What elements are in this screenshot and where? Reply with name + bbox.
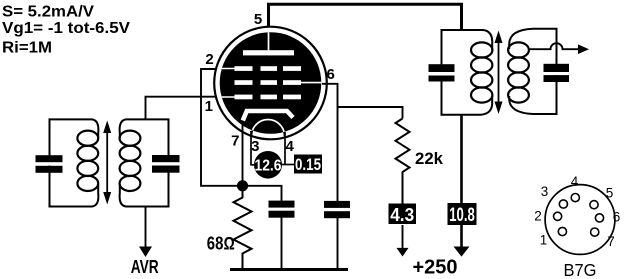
capacitor C6 (T2 secondary tuning) (544, 64, 570, 82)
anode plate (white bar) (243, 50, 294, 55)
cathode (white bracket) (243, 111, 293, 121)
g3 white lead to pin2 (219, 68, 235, 70)
tuning arrow T1 coupling (103, 121, 111, 205)
svg-text:68Ω: 68Ω (207, 234, 235, 254)
svg-text:2: 2 (205, 51, 213, 68)
svg-text:AVR: AVR (131, 256, 159, 277)
wire grid tap from T1 secondary to g1 (146, 97, 221, 120)
transformer T1 primary tank wiring (50, 119, 99, 206)
svg-text:+250: +250 (413, 257, 458, 279)
capacitor C1 (T1 primary tuning) (36, 155, 63, 173)
B7G pin 2 (554, 212, 562, 220)
transformer T2 secondary tank wiring (509, 29, 556, 114)
svg-text:10.8: 10.8 (449, 205, 475, 226)
pin5 lead inside disc (268, 32, 270, 51)
svg-text:B7G: B7G (564, 260, 597, 279)
svg-text:7: 7 (231, 133, 239, 150)
wire cathode node to bypass cap (243, 186, 282, 201)
wire screen to 22k (338, 107, 403, 119)
capacitor C2 (T1 secondary tuning) (152, 155, 180, 173)
heater pin4 lead (284, 132, 286, 165)
g2 white lead to pin6 (300, 82, 322, 84)
current box 4.3 (389, 204, 417, 225)
resistor R2 22k screen feed (396, 119, 410, 205)
B7G pin 4 (571, 194, 579, 202)
pentode tube envelope (214, 27, 327, 140)
arrow to +250 (screen branch) (397, 248, 409, 257)
svg-text:2: 2 (534, 209, 542, 224)
svg-text:3: 3 (541, 184, 549, 199)
svg-text:4.3: 4.3 (390, 204, 414, 225)
grid g1 dashes (235, 95, 302, 100)
resistor R1 68 ohm cathode (234, 186, 252, 270)
B7G pin 1 (558, 227, 566, 235)
tube internal black disc (220, 32, 322, 134)
grid g3 dashes (235, 66, 302, 71)
capacitor C5 (T2 primary tuning) (429, 64, 455, 81)
arrow to +250 (anode branch) (454, 247, 470, 257)
connector between 12.6 and 0.15 (280, 164, 295, 166)
svg-text:3: 3 (251, 138, 259, 155)
inductor L2 (T1 secondary coil) (120, 131, 141, 191)
heater current box 0.15 (294, 155, 322, 174)
B7G pin 3 (559, 200, 567, 208)
svg-text:5: 5 (254, 11, 262, 28)
heater voltage disc 12.6 (254, 151, 282, 179)
svg-text:4: 4 (571, 174, 579, 189)
inductor L4 (T2 secondary coil) (508, 42, 529, 102)
svg-text:7: 7 (607, 234, 615, 249)
wire 10.8 to +250 arrow (460, 225, 463, 247)
svg-text:4: 4 (286, 138, 295, 155)
wire T2 primary bottom to 10.8 (460, 115, 463, 206)
current box 10.8 (448, 203, 477, 225)
capacitor C3 cathode bypass (269, 201, 295, 218)
wire cap C3 to ground rail (281, 218, 283, 270)
heater dome (black part outside disc) (252, 120, 285, 136)
wire 4.3 to +250 arrow (402, 225, 404, 249)
anode top rail (pin5 to T2 primary) (269, 4, 462, 33)
svg-text:0.15: 0.15 (295, 155, 321, 174)
junction dot cathode node (237, 180, 248, 191)
tuning arrow T2 coupling (495, 31, 503, 115)
transformer T2 primary tank wiring (442, 30, 493, 115)
svg-text:S= 5.2mA/V: S= 5.2mA/V (2, 4, 95, 21)
svg-text:1: 1 (205, 98, 213, 115)
inductor L1 (T1 primary coil) (77, 131, 98, 191)
wire suppressor g3 (pin2) to cathode junction (201, 69, 243, 186)
B7G base outline (545, 185, 615, 255)
svg-text:1: 1 (540, 233, 548, 248)
tube internals in white, clipped to disc (219, 32, 322, 136)
svg-text:5: 5 (606, 186, 614, 201)
grid g2 dashes (235, 80, 302, 85)
g1 white lead to pin1 (219, 96, 235, 98)
heater dome white part inside disc (252, 120, 285, 136)
B7G pin 7 (591, 228, 599, 236)
svg-text:6: 6 (613, 210, 621, 225)
wire AVR feed from T1 secondary bottom (145, 207, 147, 249)
inductor L3 (T2 primary coil) (471, 42, 492, 102)
output wire with hop (529, 43, 579, 49)
transformer T1 secondary tank wiring (120, 119, 169, 206)
B7G pin 5 (590, 201, 598, 209)
svg-text:6: 6 (327, 66, 335, 83)
svg-text:12.6: 12.6 (255, 157, 282, 174)
wire cap C4 to ground rail (337, 218, 339, 270)
screen g2 wiring pin6 (322, 84, 338, 201)
ground rail (230, 268, 348, 271)
B7G pin 6 (595, 214, 603, 222)
svg-text:Vg1= -1 tot-6.5V: Vg1= -1 tot-6.5V (2, 20, 131, 37)
svg-text:22k: 22k (415, 149, 444, 168)
heater pin3 lead (251, 131, 257, 165)
arrow to AVR (139, 247, 152, 258)
svg-text:Ri=1M: Ri=1M (2, 40, 52, 57)
output arrow (578, 44, 589, 54)
capacitor C4 screen bypass (324, 201, 350, 218)
cathode pin7 lead (242, 122, 244, 183)
